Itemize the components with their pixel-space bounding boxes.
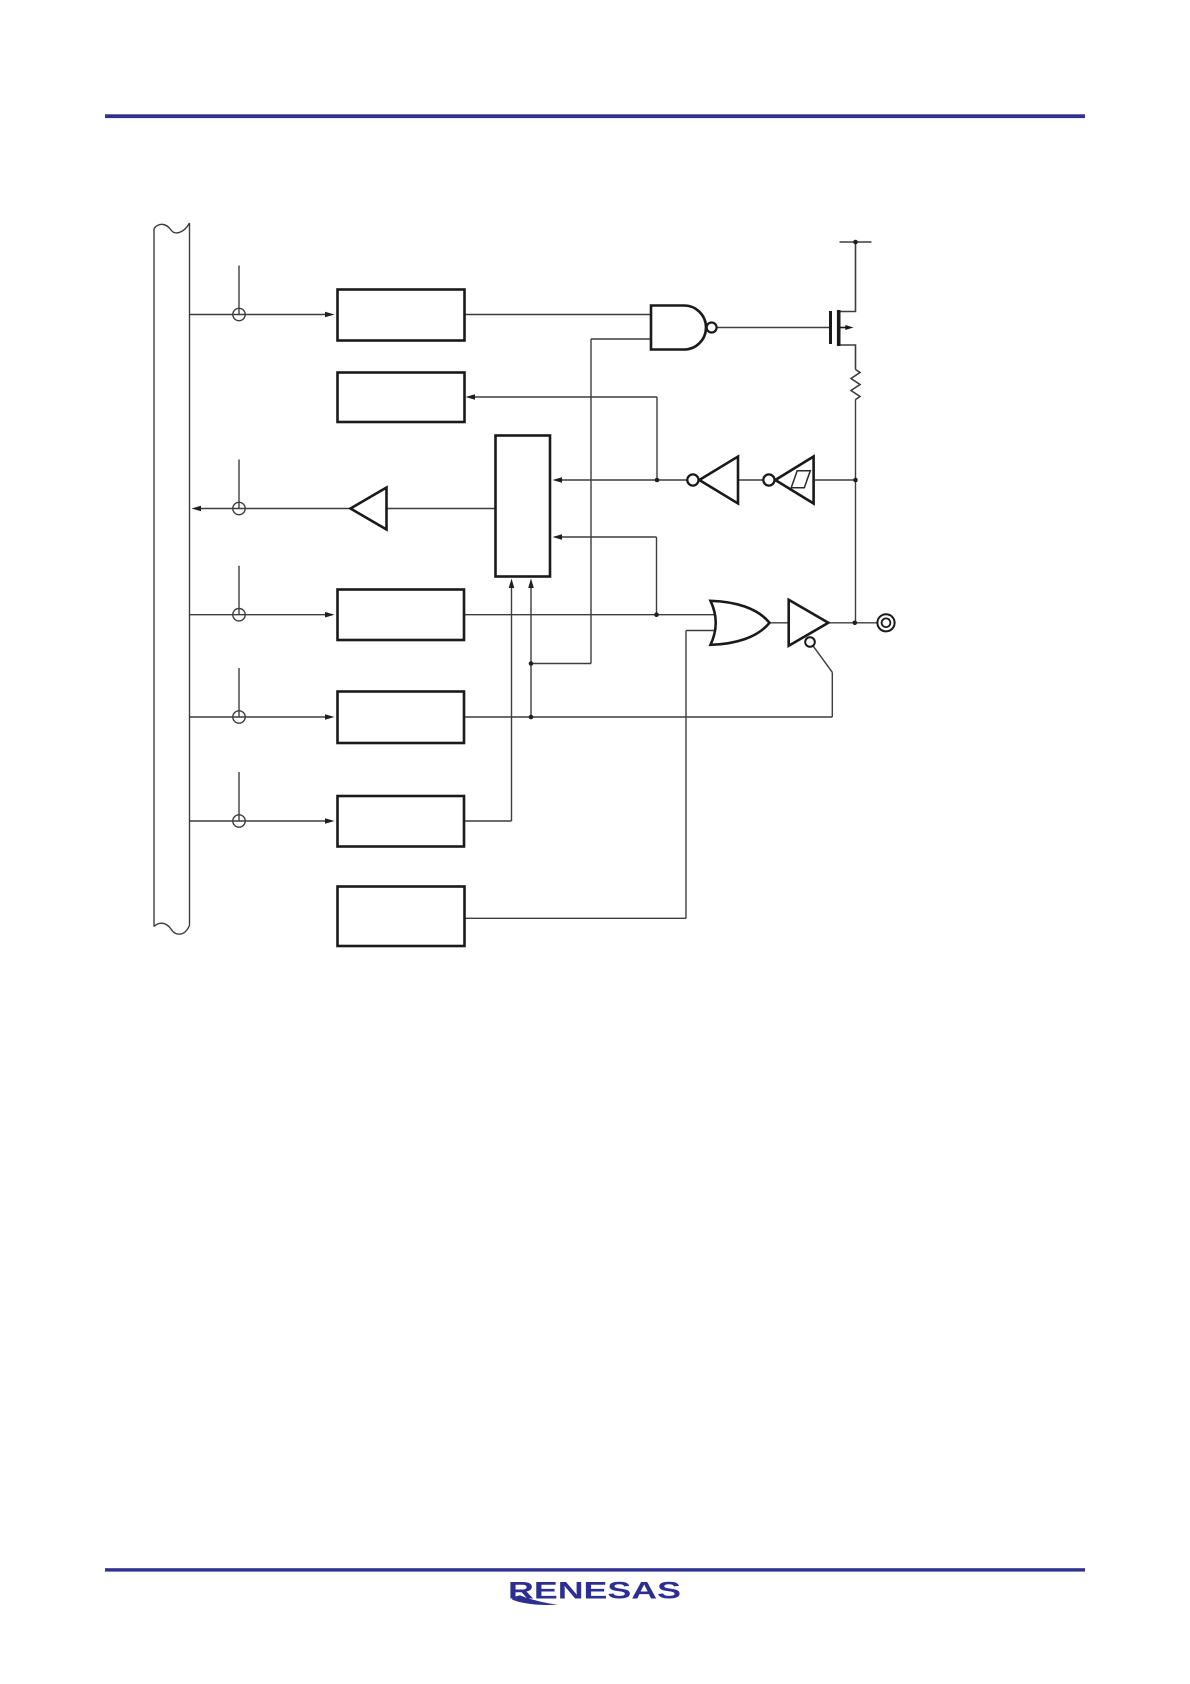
wire y663 horizontal — [531, 663, 591, 665]
bus top break wave — [154, 223, 190, 233]
footer rule — [105, 1568, 1085, 1571]
wire arrow into bus row2 — [200, 508, 351, 510]
tri-state buffer U6 — [789, 600, 829, 646]
wire tall box input2 — [561, 536, 657, 538]
tick node row3 — [238, 566, 240, 615]
wire x531 vertical (R4 out to tall box) — [530, 588, 532, 717]
arrowhead into R4 — [325, 714, 335, 720]
box R5 — [338, 796, 465, 847]
tick node row1 — [238, 266, 240, 315]
arrowhead into bus row2 — [192, 506, 202, 512]
arrowhead into tall box input1 — [553, 477, 563, 483]
bus tap circle row2 — [233, 502, 245, 514]
wire Schmitt to inverter — [738, 479, 763, 481]
bus tap circle row1 — [233, 308, 245, 320]
box R4 — [338, 692, 465, 744]
wire bus to R4 — [190, 716, 327, 718]
tick node row4 — [238, 668, 240, 717]
junction dot node x657 y480 — [655, 478, 660, 483]
bus tap circle row3 — [233, 609, 245, 621]
wire R5 out — [464, 820, 512, 822]
wire bus to R5 — [190, 820, 327, 822]
output pad (pin) — [877, 614, 894, 631]
MOSFET Q1 body arrow shaft — [841, 327, 848, 329]
box R2 (second register) — [338, 373, 465, 423]
arrowhead into tall box input2 — [553, 534, 563, 540]
tri-state enable bubble — [805, 637, 815, 647]
box R3 — [338, 590, 465, 641]
wire source stub — [839, 345, 856, 370]
wire drain to rail — [839, 242, 856, 312]
inverter U3 bubble — [687, 474, 698, 485]
wire OR out to tri-state — [770, 622, 790, 624]
wire R4 out (enable line) — [464, 716, 832, 718]
inverter U3 — [699, 457, 738, 504]
wire R3 to OR input1 — [464, 614, 715, 616]
wire NAND output to MOSFET gate — [717, 327, 830, 329]
MOSFET Q1 channel bar — [837, 310, 841, 346]
arrowhead into R1 — [325, 312, 335, 318]
junction dot at power rail — [853, 240, 858, 245]
resistor R (zigzag) — [851, 370, 860, 400]
wire enable vertical — [831, 672, 833, 717]
NAND gate U1 — [651, 306, 706, 350]
OR gate U5 — [711, 601, 770, 645]
junction dot node x656 y614 — [654, 612, 659, 617]
wire NAND input2 vertical — [590, 339, 592, 664]
box R1 (top register) — [338, 290, 465, 341]
tick node row2 — [238, 460, 240, 509]
bus left line — [153, 229, 155, 927]
wire bus to R3 — [190, 614, 327, 616]
arrowhead up into tall box bottom (right) — [528, 579, 534, 589]
MOSFET Q1 gate bar — [829, 311, 832, 344]
arrowhead into R3 — [325, 612, 335, 618]
Schmitt U4 bubble — [763, 474, 774, 485]
wire R6 vertical — [685, 631, 687, 919]
wire Schmitt input — [814, 479, 856, 481]
NAND output bubble — [707, 323, 717, 333]
arrowhead into R5 — [325, 818, 335, 824]
box R6 (bottom register) — [338, 887, 465, 947]
wire R6 out — [465, 917, 687, 919]
wire R5 vertical to tall box bottom — [511, 588, 513, 821]
arrowhead up into tall box bottom (left) — [509, 579, 515, 589]
wire buffer to tall box — [387, 508, 497, 510]
junction dot x531 y717 — [529, 715, 534, 720]
wire x656 vertical row3 to input2 — [656, 537, 658, 615]
wire R1 to NAND input1 — [465, 314, 653, 316]
junction dot node x855 y480 — [853, 478, 858, 483]
junction dot output node — [853, 621, 858, 626]
wire x657 vertical to R2 — [656, 397, 658, 480]
wire inverter out to tall box input1 — [561, 479, 688, 481]
MOSFET Q1 body arrowhead — [845, 325, 853, 330]
tick node row5 — [238, 772, 240, 821]
hysteresis symbol in U4 — [791, 471, 810, 488]
wire node vertical resistor to output — [855, 400, 857, 623]
bus bottom break wave — [154, 923, 190, 934]
arrowhead into R2 — [466, 394, 476, 400]
wire NAND input2 — [591, 338, 652, 340]
Renesas logo — [508, 1578, 681, 1605]
bus tap circle row5 — [233, 815, 245, 827]
wire tri-state out to pad — [828, 622, 877, 624]
wire enable diagonal to bubble — [813, 646, 832, 672]
power rail bar — [840, 241, 872, 243]
wire to OR input2 — [686, 630, 715, 632]
box TALL (control block) — [496, 436, 551, 577]
wire into R2 — [473, 396, 657, 398]
bus tap circle row4 — [233, 711, 245, 723]
buffer U2 (to bus) — [351, 488, 387, 530]
junction dot x531 y663 — [529, 661, 534, 666]
Schmitt inverter U4 — [775, 457, 813, 504]
wire bus to R1 — [190, 314, 327, 316]
header rule — [105, 114, 1085, 118]
bus right line — [189, 223, 191, 926]
